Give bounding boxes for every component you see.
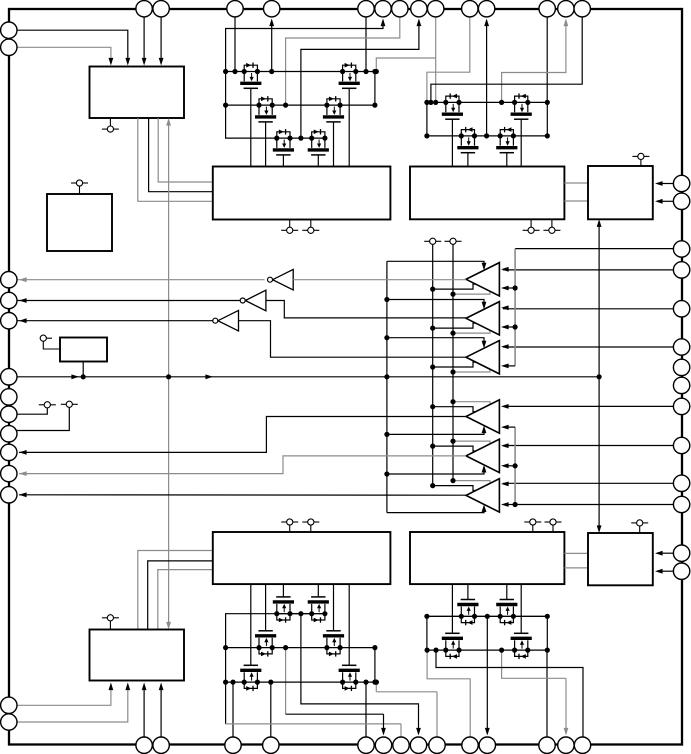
transistor Q1 xyxy=(242,69,247,74)
feedback U1 xyxy=(433,284,490,289)
transistor Q15 xyxy=(324,645,329,650)
wire pin B10 to railBb xyxy=(546,650,548,737)
wire comp3 out xyxy=(239,321,467,358)
transistor Q3 xyxy=(274,136,279,141)
feed comp2 xyxy=(387,300,484,308)
column right bridge1 xyxy=(374,72,376,106)
predriver block H xyxy=(410,532,564,584)
gate stem Q7 xyxy=(451,119,453,166)
wire pin RC1 to E xyxy=(657,183,673,185)
wire comp4 out xyxy=(19,417,466,453)
wire bias gray vertical xyxy=(168,122,170,624)
railAb xyxy=(427,615,547,617)
wire railB to pin P9 xyxy=(486,21,488,136)
logic block J xyxy=(90,630,185,681)
wire rail3b to pin B6 xyxy=(301,614,419,734)
block F xyxy=(60,338,107,362)
transistor Q4 xyxy=(309,136,314,141)
column right bridge3 xyxy=(374,648,376,683)
column left bridge1 xyxy=(226,72,277,139)
transistor Q20 xyxy=(512,648,517,653)
wire pin C3+ xyxy=(503,346,673,348)
ref pin dogleg 2 xyxy=(17,407,69,430)
transistor Q8 xyxy=(459,133,464,138)
gate stem Q13 xyxy=(282,584,284,597)
ref pin I xyxy=(631,522,636,524)
stem F xyxy=(82,362,84,377)
ground ref A xyxy=(109,118,111,126)
wire rail1b to pin B4 xyxy=(225,682,227,724)
logic block A xyxy=(90,67,185,119)
comparator U5 xyxy=(466,439,499,472)
gate stem Q19 xyxy=(506,584,508,600)
feed comp5 xyxy=(387,467,484,474)
transistor Q16 xyxy=(340,680,345,685)
junction dots bridge2 xyxy=(424,100,429,105)
column left bridge2 xyxy=(426,102,428,135)
predriver block C xyxy=(213,167,391,220)
transistor Q11 xyxy=(242,680,247,685)
gate stem Q1 xyxy=(250,88,252,166)
ref pin B xyxy=(71,182,76,184)
gate stem Q15 xyxy=(333,584,335,631)
wire pin C6+ xyxy=(503,482,673,484)
bank bottom edge to comp6 xyxy=(387,507,484,513)
wire pin C4+ xyxy=(503,405,673,407)
wire pin CLK2 to J xyxy=(143,687,145,737)
block B xyxy=(47,194,112,251)
vref long line xyxy=(17,376,599,378)
transistor Q18 xyxy=(459,614,464,619)
railBb xyxy=(427,649,547,651)
wire rail2b to pin B3 xyxy=(285,648,287,715)
wire out3 to pin xyxy=(17,320,213,322)
sense tap C3- xyxy=(503,365,515,367)
gate stem Q18 xyxy=(467,584,469,600)
gate stem Q20 xyxy=(520,584,522,633)
wire rail3 to pin P6 xyxy=(301,21,419,139)
wire D to E a xyxy=(564,182,588,184)
transistor Q10 xyxy=(512,100,517,105)
gate stem Q2 xyxy=(265,122,267,167)
transistor Q13 xyxy=(274,611,279,616)
feedback U4 xyxy=(433,407,490,412)
transistor Q7 xyxy=(443,100,448,105)
wire pin C1+ xyxy=(503,269,673,271)
junction dots bridge4 xyxy=(425,648,430,653)
wire pin CLK to logic A xyxy=(143,17,145,60)
wire comp5 out xyxy=(19,456,466,474)
wire H to I b xyxy=(564,567,588,569)
ref pin E xyxy=(632,155,637,157)
wire H to I a xyxy=(564,552,588,554)
wire A out3 xyxy=(158,118,213,182)
comparator U2 xyxy=(466,302,499,335)
column left bridge3 xyxy=(226,614,277,682)
wire pin B12 to railBb xyxy=(436,650,583,737)
rail2b xyxy=(226,647,375,649)
junction dots bridge3 xyxy=(223,680,228,685)
transistor Q6 xyxy=(340,69,345,74)
inverter N2 xyxy=(245,290,266,311)
wire rail1 out to pin P2 xyxy=(271,21,273,72)
junction dots bridge1 xyxy=(223,69,228,74)
wire pin B5 to rail1b xyxy=(365,682,367,737)
sense tap C5- xyxy=(503,465,515,467)
ref F xyxy=(40,335,46,341)
rail2 mid xyxy=(226,104,375,106)
feedback U6 xyxy=(433,486,490,491)
rail3 low xyxy=(277,137,325,139)
rail1b xyxy=(226,681,377,683)
wire A out2 xyxy=(149,118,213,192)
transistor Q17 xyxy=(443,648,448,653)
railB xyxy=(427,135,547,137)
sense tap C4- xyxy=(503,426,515,428)
gate stem Q11 xyxy=(250,584,252,665)
wire pin ENA2 to J xyxy=(160,687,162,737)
railA xyxy=(427,101,547,103)
feedback U5 xyxy=(433,446,490,451)
gate stem Q17 xyxy=(451,584,453,633)
wire D to E b xyxy=(564,200,588,202)
feed comp3 xyxy=(387,338,484,346)
wire railAb to pin B9 xyxy=(486,616,488,733)
ref pin dogleg xyxy=(17,408,47,414)
wire pin RC3 to I xyxy=(657,552,673,554)
wire rail1b to pin B2 xyxy=(270,682,272,737)
bank top edge to comp1 xyxy=(387,261,484,268)
wire pin C2+ xyxy=(503,308,673,310)
ground refs C xyxy=(289,220,291,228)
wire comp2 out xyxy=(266,301,466,318)
wire J in2 xyxy=(148,561,213,630)
wire E bias vertical xyxy=(598,223,600,530)
gate stem Q14 xyxy=(317,584,319,597)
transistor Q9 xyxy=(498,133,503,138)
wire pin P8 to railA xyxy=(427,17,470,103)
sense tap C1- xyxy=(503,287,515,289)
column right bridge4 xyxy=(546,616,548,650)
vref line 1 xyxy=(432,244,434,485)
inverter N1 xyxy=(273,269,294,290)
gate stem Q9 xyxy=(506,153,508,167)
gate stem Q8 xyxy=(467,153,469,167)
wire pin B1 to rail1b xyxy=(232,682,234,737)
gate stem Q5 xyxy=(333,122,335,167)
wire pin P1 to rail1 xyxy=(234,17,236,72)
comparator U4 xyxy=(466,400,499,433)
ref pin J xyxy=(102,617,107,619)
comparator U3 xyxy=(466,341,499,374)
rail1 top xyxy=(226,71,377,73)
osc block I xyxy=(588,533,653,585)
osc block E xyxy=(588,166,653,219)
wire pin P10 to railA xyxy=(546,17,548,103)
gate stem Q16 xyxy=(348,584,350,665)
wire out1 to pin xyxy=(17,279,265,281)
wire pin P5 to rail1 xyxy=(365,17,367,72)
wire pin IN3 to J xyxy=(17,687,111,705)
wire comp6 out xyxy=(19,494,466,496)
transistor Q5 xyxy=(324,103,329,108)
transistor Q2 xyxy=(256,103,261,108)
comparator U6 xyxy=(466,479,499,512)
column left bridge4 xyxy=(426,616,428,650)
sense bus top xyxy=(515,248,673,250)
comparator U1 xyxy=(466,263,499,296)
ground refs H xyxy=(524,521,529,523)
ground refs G xyxy=(281,521,286,523)
IC pins xyxy=(136,1,152,17)
wire rail1 to pin P3 xyxy=(226,21,383,72)
ground refs D xyxy=(530,219,532,227)
wire pin B8 to railBb xyxy=(427,650,470,737)
transistor Q19 xyxy=(498,614,503,619)
feed comp4 xyxy=(387,428,484,435)
wire J in3 xyxy=(158,570,213,630)
wire pin C5+ xyxy=(503,445,673,447)
wire pin P12 to railA xyxy=(431,17,582,103)
wire railBb to pin B11 xyxy=(502,650,566,678)
wire pin RC2 to E xyxy=(657,200,673,202)
gate stem Q4 xyxy=(317,155,319,167)
wire pin ENA to logic A xyxy=(160,17,162,60)
wire pin IN4 to J xyxy=(17,687,128,722)
wire railA to pin P11 xyxy=(502,21,566,103)
wire out2 to pin xyxy=(17,300,240,302)
wire pin P4 to rail2 xyxy=(286,17,400,105)
sense tap C2- xyxy=(503,326,515,328)
column right bridge2 xyxy=(546,102,548,135)
wire A out1 xyxy=(138,118,213,201)
gate stem Q3 xyxy=(282,155,284,167)
wire J in1 xyxy=(138,551,213,630)
wire pin P7 to railA xyxy=(435,17,437,103)
feedback U2 xyxy=(433,323,490,328)
gate stem Q6 xyxy=(348,88,350,166)
transistor Q12 xyxy=(256,645,261,650)
gate stem Q12 xyxy=(265,584,267,631)
inverter N3 xyxy=(218,310,239,331)
wire pin IN1 to logic A xyxy=(17,30,128,60)
gate stem Q10 xyxy=(520,119,522,166)
vref sources xyxy=(424,240,429,242)
feedback U3 xyxy=(433,362,490,367)
predriver block D xyxy=(410,167,564,220)
wire comp1 out xyxy=(293,279,466,281)
rail3b xyxy=(277,613,325,615)
wire pin RC4 to I xyxy=(657,570,673,572)
wire pin IN2 to logic A xyxy=(17,47,111,60)
wire pin B7 ref xyxy=(436,692,438,738)
predriver block G xyxy=(213,532,391,584)
transistor Q14 xyxy=(309,611,314,616)
bank left rail xyxy=(386,261,388,512)
vref line 2 xyxy=(452,244,454,480)
wire rail1 gray stub xyxy=(376,58,435,72)
sense bus bottom xyxy=(515,504,673,506)
sense tap C6- xyxy=(506,504,515,506)
